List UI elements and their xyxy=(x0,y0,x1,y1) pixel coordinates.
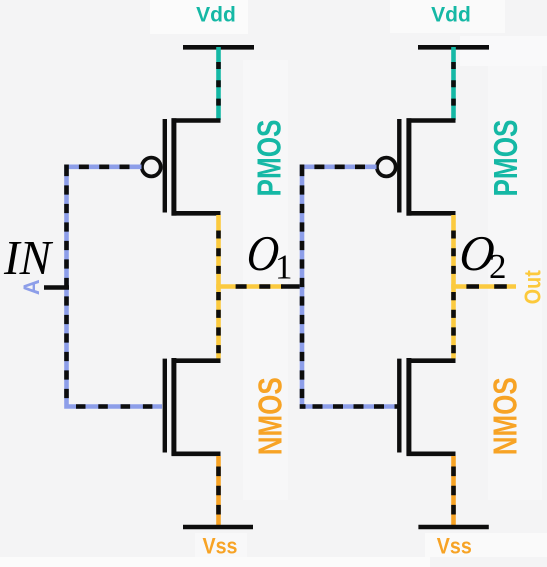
svg-text:2: 2 xyxy=(489,247,507,286)
svg-text:A: A xyxy=(19,279,44,295)
svg-text:PMOS: PMOS xyxy=(251,120,288,197)
transistor PMOS M1 xyxy=(142,118,221,215)
power symbol Vss bar (stage 2) xyxy=(418,525,488,530)
wire NMOS M2 source to Vss (orange dashed) xyxy=(216,456,221,527)
svg-text:IN: IN xyxy=(3,231,54,285)
power symbol Vdd bar (stage 2) xyxy=(418,45,489,50)
svg-text:Vdd: Vdd xyxy=(196,4,236,27)
transistor NMOS M2 xyxy=(165,358,221,456)
svg-text:Vdd: Vdd xyxy=(431,4,471,27)
svg-text:Vss: Vss xyxy=(437,533,472,558)
wire NMOS M4 source to Vss (orange dashed) xyxy=(451,456,456,527)
transistor NMOS M4 xyxy=(399,358,455,456)
wire input net A: PMOS gate / trunk / NMOS gate (blue dashed) xyxy=(67,165,163,407)
wire node O1 horizontal to stage-2 gate trunk xyxy=(216,284,304,289)
wire IN stub xyxy=(44,285,69,289)
svg-text:NMOS: NMOS xyxy=(252,377,289,455)
svg-text:Out: Out xyxy=(520,270,546,304)
wire Vdd to PMOS M1 source (teal dashed) xyxy=(216,47,221,120)
svg-text:1: 1 xyxy=(275,247,293,286)
wire net O1 to gates of M3/M4: trunk stage 2 (blue dashed) xyxy=(300,165,398,407)
wire O2 vertical: PMOS M3 drain to NMOS M4 drain (yellow dashed) xyxy=(451,215,456,359)
wire Out stub (yellow dashed) xyxy=(451,284,516,289)
transistor PMOS M3 xyxy=(377,118,456,215)
wire Vdd to PMOS M3 source (teal dashed) xyxy=(451,47,456,120)
svg-text:NMOS: NMOS xyxy=(486,377,523,455)
power symbol Vss bar (stage 1) xyxy=(183,525,253,530)
svg-text:Vss: Vss xyxy=(203,533,238,558)
wire O1 vertical: PMOS M1 drain to NMOS M2 drain (yellow dashed) xyxy=(216,215,221,359)
svg-text:PMOS: PMOS xyxy=(487,120,524,197)
power symbol Vdd bar (stage 1) xyxy=(183,45,254,50)
